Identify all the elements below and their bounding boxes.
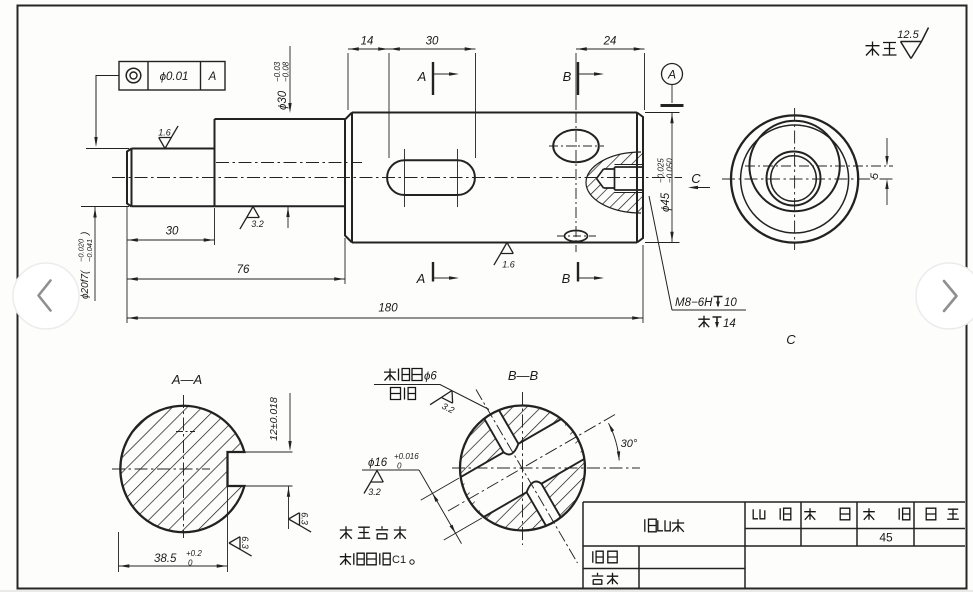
- svg-text:B: B: [563, 69, 572, 84]
- phi16 hole axis centerline 30deg: [448, 415, 615, 512]
- pei zuo (fit together) label: [391, 388, 401, 400]
- section mark A top: [432, 62, 434, 95]
- M8 hole leader line: [649, 196, 746, 310]
- svg-text:ϕ20f7(: ϕ20f7(: [80, 269, 91, 299]
- right end face lines restored over hole: [636, 160, 638, 200]
- phi16 dimension extension lines: [421, 478, 459, 500]
- svg-text:+0.2: +0.2: [186, 549, 202, 558]
- extension line left for 38.5: [118, 532, 120, 572]
- datum A circle and leader: [662, 64, 683, 85]
- phi16 hole upper edge with pin-hole jog: [461, 419, 562, 477]
- extension line right (flat) for 38.5: [227, 486, 229, 572]
- svg-text:12.5: 12.5: [897, 29, 919, 41]
- A-A centerlines: [112, 468, 210, 470]
- svg-text:180: 180: [378, 303, 398, 315]
- roughness 3.2 under phi30: [240, 207, 259, 230]
- svg-text:76: 76: [237, 264, 250, 276]
- M8 tapped hole (white cutout): [597, 165, 644, 193]
- svg-text:): ): [80, 232, 91, 236]
- B-B outer circle: [460, 406, 585, 531]
- svg-text:6.3: 6.3: [240, 536, 250, 549]
- svg-text:A: A: [417, 69, 427, 84]
- A-A small eccentric center dash: [176, 431, 195, 433]
- taper pin hole label (zhui xiao kong phi6): [384, 369, 396, 381]
- pin hole opening small ellipse: [565, 231, 588, 242]
- GDT concentricity feature control frame: [119, 62, 225, 91]
- M8 thread major lines: [615, 167, 644, 190]
- svg-text:ϕ16: ϕ16: [368, 457, 388, 469]
- svg-text:B—B: B—B: [508, 368, 539, 383]
- svg-text:C: C: [691, 171, 701, 186]
- pin hole lower edges: [527, 484, 561, 526]
- svg-text:0: 0: [397, 462, 402, 471]
- A-A section outline with keyway flat: [120, 406, 244, 532]
- part name pian xin zhou (eccentric shaft): [645, 519, 656, 532]
- header tu hao (drawing no.): [926, 508, 936, 520]
- svg-text:0: 0: [188, 559, 193, 568]
- GDT leader to phi20: [96, 76, 119, 139]
- roughness 6.3 on flat extension: [229, 536, 252, 556]
- shaft phi20 journal section outline: [127, 119, 215, 207]
- phi45 dimension extension lines: [645, 112, 680, 114]
- header cai liao (material): [863, 508, 875, 520]
- shaft right end chamfer: [637, 113, 643, 243]
- svg-text:−0.08: −0.08: [282, 61, 291, 82]
- dimension phi45 -0.025/-0.050: [671, 113, 673, 243]
- svg-text:ϕ30: ϕ30: [277, 90, 289, 110]
- dimension phi30 -0.03/-0.08: [289, 46, 291, 105]
- svg-text:−0.041: −0.041: [85, 239, 94, 262]
- svg-text:C: C: [786, 332, 796, 347]
- svg-text:5: 5: [869, 172, 881, 179]
- header bi li (scale): [753, 509, 765, 519]
- keyway slot extension lines: [244, 451, 292, 453]
- phi16 hole ellipse horizontal centerline: [549, 145, 604, 147]
- svg-text:M8−6H: M8−6H: [675, 297, 713, 309]
- extension lines top dims: [347, 53, 349, 110]
- dimension 180: [127, 317, 643, 319]
- svg-text:ϕ45: ϕ45: [660, 192, 672, 212]
- svg-text:3.2: 3.2: [251, 219, 264, 229]
- M8 thread minor thin lines: [615, 165, 644, 193]
- slot end-arc center marks: [404, 149, 406, 207]
- dimension 12 +-0.018: [289, 393, 291, 443]
- roughness 6.3 right of keyway: [289, 512, 312, 532]
- svg-text:45: 45: [879, 531, 893, 545]
- technical requirements heading: [340, 526, 352, 539]
- C view chamfer circle: [741, 125, 849, 233]
- M8 hole drill cone: [597, 169, 604, 188]
- dimension 24: [576, 48, 645, 50]
- concentricity symbol outer circle: [126, 68, 141, 83]
- svg-text:1.6: 1.6: [158, 127, 171, 137]
- svg-text:C1: C1: [392, 554, 406, 566]
- extension lines bottom dims: [126, 207, 128, 323]
- M8 hole drill body: [604, 167, 615, 190]
- header shu liang (quantity): [804, 508, 816, 520]
- svg-text:ϕ0.01: ϕ0.01: [160, 71, 189, 83]
- phi16 dimension line (oblique leader): [419, 470, 462, 544]
- C view phi20 end circle: [767, 152, 821, 206]
- pin hole upper edges: [484, 410, 518, 452]
- B-B horizontal centerline: [452, 467, 640, 469]
- svg-text:38.5: 38.5: [154, 553, 177, 565]
- svg-text:−0.025: −0.025: [657, 158, 666, 183]
- note: unnoted chamfers C1: [340, 553, 351, 565]
- svg-text:30: 30: [166, 226, 179, 238]
- C view outer phi45 circle: [731, 115, 858, 242]
- dimension 38.5 +0.2/0: [119, 565, 228, 567]
- left nav chevron button: [13, 263, 79, 329]
- svg-text:+0.016: +0.016: [394, 452, 419, 461]
- svg-text:B: B: [562, 271, 571, 286]
- shaft phi45 body section outline: [345, 113, 637, 243]
- title block grid: [583, 501, 965, 503]
- roughness 3.2 rotated on pin leader: [430, 385, 462, 416]
- svg-text:14: 14: [361, 36, 374, 48]
- 30 degree angle arc: [609, 423, 620, 460]
- right nav chevron button: [916, 263, 973, 329]
- svg-text:12±0.018: 12±0.018: [268, 397, 280, 441]
- svg-text:6.3: 6.3: [300, 512, 310, 525]
- shen he (checked by): [592, 573, 603, 584]
- qi yu (others) roughness note: [866, 42, 880, 56]
- slot milled elongated hole on phi45: [387, 160, 475, 195]
- C view main horizontal centerline: [722, 178, 893, 180]
- svg-text:14: 14: [723, 318, 736, 330]
- svg-text:−0.050: −0.050: [666, 158, 675, 183]
- char kong (hole): [698, 316, 710, 327]
- roughness 1.6 under phi45: [494, 243, 513, 266]
- section mark B top: [577, 62, 579, 95]
- dimension 30 top: [389, 48, 476, 50]
- pin label underline and leader: [374, 385, 489, 410]
- svg-text:A: A: [416, 271, 426, 286]
- dimension 30 bottom: [127, 239, 215, 241]
- pin hole small ellipse centerline: [557, 235, 596, 237]
- section mark A bottom: [432, 262, 434, 282]
- svg-text:24: 24: [603, 36, 617, 48]
- C view eccentric horizontal centerline: [745, 165, 893, 167]
- break-out section boundary arc: [586, 152, 641, 213]
- shaft phi30 eccentric section outline: [132, 119, 346, 236]
- svg-text:ϕ6: ϕ6: [424, 371, 437, 383]
- phi20 extension lines: [86, 148, 129, 150]
- section mark B bottom: [577, 262, 579, 282]
- svg-text:1.6: 1.6: [502, 260, 515, 270]
- roughness 1.6 on phi20: [159, 126, 178, 149]
- concentricity symbol inner circle: [130, 72, 137, 79]
- B-B cutting plane axis vertical: [575, 112, 577, 252]
- svg-text:3.2: 3.2: [368, 487, 381, 497]
- svg-text:A—A: A—A: [171, 372, 202, 387]
- svg-text:A: A: [208, 71, 217, 83]
- B-B vertical centerline: [522, 392, 524, 545]
- svg-text:A: A: [667, 68, 676, 82]
- A-A hatching: [115, 400, 255, 538]
- roughness 3.2 under phi16 label: [364, 471, 383, 494]
- phi16 radial hole opening ellipse: [553, 130, 599, 162]
- dimension 5 eccentricity: [886, 138, 888, 161]
- dimension 14: [348, 48, 389, 50]
- main axis centerline: [112, 177, 682, 179]
- svg-text:30: 30: [426, 36, 439, 48]
- dimension phi20f7: [94, 207, 96, 302]
- svg-text:10: 10: [724, 297, 737, 309]
- zhi tu (drawn by): [593, 551, 603, 563]
- C view phi20 chamfer circle: [771, 156, 817, 202]
- dimension 76: [127, 278, 345, 280]
- phi16 hole lower edge with pin-hole jog: [484, 459, 585, 517]
- svg-text:30°: 30°: [621, 438, 638, 450]
- B-B hatching: [455, 400, 591, 536]
- C view vertical centerline: [794, 108, 796, 250]
- phi16 +0.016/0 label: [362, 469, 419, 471]
- C view eccentric phi30 circle: [749, 121, 839, 211]
- eccentric axis centerline: [216, 162, 362, 164]
- pin hole axis centerline: [476, 390, 578, 564]
